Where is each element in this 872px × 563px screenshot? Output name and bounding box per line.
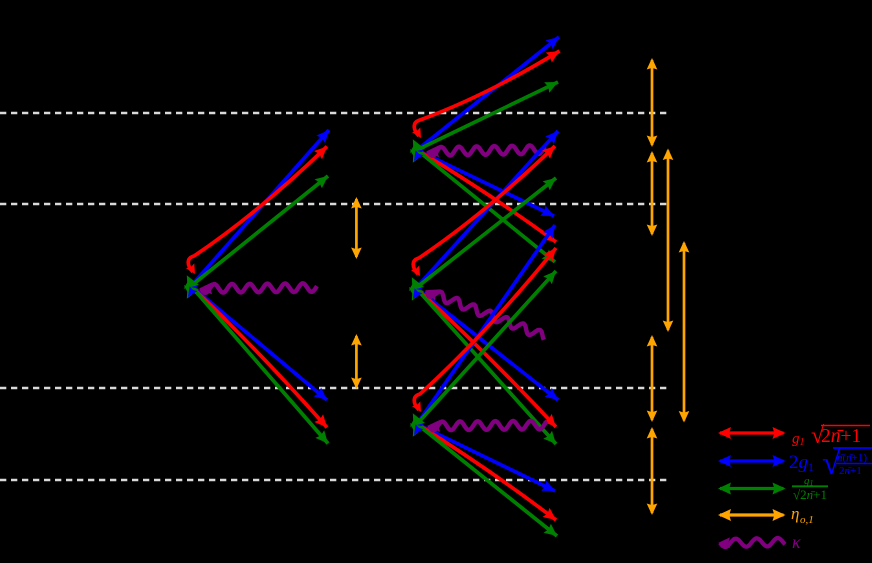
svg-text:√2n̄+1: √2n̄+1 [793, 487, 827, 502]
dashed level line 3 [0, 387, 669, 389]
left fan origin arrowhead cluster [184, 275, 199, 299]
fan A origin arrowhead cluster [410, 139, 425, 163]
left fan kappa wavy arrow [199, 282, 317, 294]
fan C origin arrowhead cluster [410, 413, 425, 437]
fan B blue up arrow [416, 131, 558, 288]
legend blue splitting arrow [718, 455, 786, 467]
legend orange eta arrow [718, 509, 786, 521]
dashed level line 4 [0, 479, 668, 481]
fan B green up arrow [416, 178, 556, 288]
orange eta arrow middle lower [351, 334, 362, 389]
orange eta arrow right col1 a [647, 58, 658, 147]
fan A blue up arrow [417, 37, 559, 150]
legend green label g1 / sqrt(2n+1) [792, 475, 828, 502]
orange eta arrow right col1 c [647, 335, 658, 422]
fan B kappa wavy arrow [425, 289, 544, 339]
legend red label g1 sqrt(2n+1) [792, 423, 870, 449]
fan C origin blue tail arrowhead [414, 419, 424, 428]
legend blue label 2g1 sqrt(n(n+1)/(2n+1)) [789, 445, 872, 482]
fan A green down arrow [417, 150, 555, 262]
fan A blue down arrow [417, 150, 554, 216]
left fan blue up arrow [191, 130, 329, 286]
left fan origin blue tail arrowhead [188, 281, 198, 290]
svg-text:2n̄+1: 2n̄+1 [839, 465, 862, 477]
left fan green down arrow [191, 286, 328, 444]
fan B green down arrow [416, 288, 556, 444]
dashed level line 1 [0, 112, 668, 114]
dashed level line 2 [0, 203, 668, 205]
fan B origin arrowhead cluster [409, 277, 424, 301]
left fan red up arrow [186, 147, 327, 275]
fan B blue down arrow [416, 288, 558, 400]
fan B origin blue tail arrowhead [413, 283, 423, 292]
fan B red down arrow [416, 288, 556, 427]
fan A red up arrow [412, 51, 560, 138]
fan C red down arrow [417, 424, 556, 520]
orange eta arrow right col1 d [647, 427, 658, 515]
svg-text:2n̄+1: 2n̄+1 [821, 426, 861, 447]
legend kappa wavy arrow [718, 537, 785, 548]
legend orange label eta_o,1 [791, 504, 814, 526]
legend green splitting arrow [718, 483, 786, 495]
orange eta arrow right col1 b [647, 151, 658, 236]
svg-text:η: η [791, 504, 799, 523]
legend red splitting arrow [718, 427, 786, 439]
fan A red down arrow [417, 150, 556, 242]
orange eta arrow right col3 [679, 241, 690, 423]
fan C kappa wavy arrow [427, 420, 547, 432]
fan C blue up arrow [417, 225, 555, 424]
left fan blue down arrow [191, 286, 327, 400]
fan C green down arrow [417, 424, 557, 536]
fan C blue down arrow [417, 424, 555, 491]
left fan green up arrow [191, 176, 328, 286]
fan A origin blue tail arrowhead [414, 145, 424, 154]
legend purple label kappa [792, 532, 801, 552]
fan C red up arrow [412, 248, 556, 412]
fan B red up arrow [411, 146, 555, 276]
left fan red down arrow [191, 286, 327, 428]
svg-text:n̄(n̄+1): n̄(n̄+1) [837, 452, 867, 464]
fan C green up arrow [417, 271, 556, 424]
fan A kappa wavy arrow [426, 145, 545, 157]
fan A green up arrow [417, 82, 558, 150]
svg-text:o,1: o,1 [800, 514, 814, 526]
orange eta arrow middle upper [351, 197, 362, 259]
svg-text:κ: κ [792, 532, 801, 552]
orange eta arrow right col2 [663, 149, 674, 333]
